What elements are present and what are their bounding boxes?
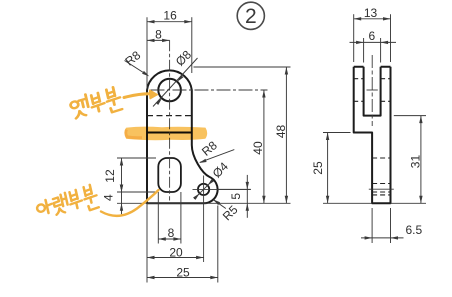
dim 8 bottom <box>157 192 159 244</box>
svg-text:25: 25 <box>176 265 190 279</box>
label R5 with leader <box>214 200 226 209</box>
label Ø4 with leader <box>194 180 213 199</box>
svg-text:4: 4 <box>102 194 116 201</box>
side hidden lines top hole <box>354 78 364 80</box>
dim 48 <box>285 67 287 203</box>
svg-text:25: 25 <box>311 161 325 175</box>
front view outline <box>147 70 218 203</box>
ext line top of part <box>194 66 291 68</box>
dim 12 <box>117 157 156 159</box>
orange highlight band <box>124 127 207 141</box>
dim 6 <box>363 38 365 63</box>
dim 4 <box>121 192 123 214</box>
ext line bottom <box>147 202 291 204</box>
svg-text:12: 12 <box>103 169 117 183</box>
orange curved leader to slot <box>101 190 159 216</box>
svg-text:6: 6 <box>368 29 375 43</box>
side view outline <box>354 67 391 204</box>
centerlines small hole <box>203 176 205 263</box>
label R8 top <box>125 61 148 76</box>
svg-text:13: 13 <box>364 6 378 20</box>
circled number 2 <box>237 2 264 29</box>
side hidden lines lower (slot & small hole) <box>372 157 390 159</box>
small hole circle Ø4 <box>198 184 209 195</box>
dim 25 <box>217 206 219 283</box>
dim 25 side <box>323 132 351 134</box>
top hole circle Ø8 <box>158 79 181 102</box>
dim 16 <box>146 17 148 90</box>
dim 5 <box>218 188 251 190</box>
dim 31 <box>394 115 426 117</box>
svg-text:2: 2 <box>245 5 257 28</box>
side center cross top hole <box>367 89 378 91</box>
vertical centerline front <box>169 40 171 200</box>
svg-text:8: 8 <box>155 27 162 41</box>
svg-text:8: 8 <box>168 226 175 240</box>
step edge line <box>147 132 192 134</box>
svg-text:20: 20 <box>169 245 183 259</box>
side centerline vertical <box>371 55 373 126</box>
horizontal centerline top hole / ext for dim 40 <box>151 89 268 91</box>
dim 8 top <box>147 39 170 41</box>
label R8 lower (fillet) <box>200 150 234 163</box>
svg-text:48: 48 <box>274 125 288 139</box>
svg-text:5: 5 <box>229 193 243 200</box>
dim 13 <box>353 14 355 62</box>
hidden line (fork slot bottom) <box>147 115 192 117</box>
annotation text 아랫부분 (lower part) <box>35 184 100 222</box>
svg-text:40: 40 <box>251 141 265 155</box>
annotation text 윗부분 (upper part) <box>69 86 123 121</box>
dim 20 <box>146 203 148 282</box>
svg-text:16: 16 <box>163 8 177 22</box>
label Ø8 with leader <box>153 58 198 107</box>
slot obround hole <box>158 158 181 192</box>
svg-text:6.5: 6.5 <box>405 223 422 237</box>
dim 40 <box>263 90 265 203</box>
svg-text:31: 31 <box>408 155 422 169</box>
dim 6.5 <box>371 208 373 243</box>
orange arrow to top hole <box>124 94 152 98</box>
